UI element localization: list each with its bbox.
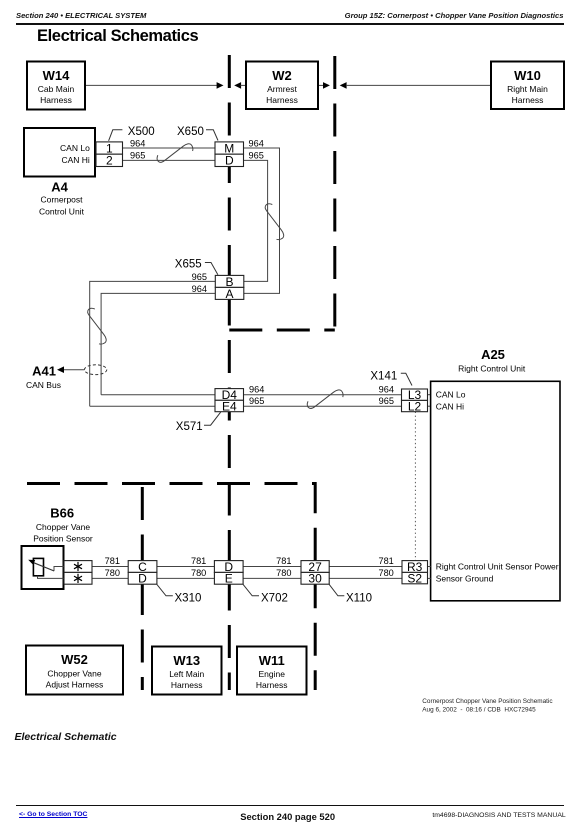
svg-text:780: 780 [105, 568, 120, 578]
svg-text:965: 965 [249, 396, 264, 406]
svg-text:781: 781 [191, 556, 206, 566]
harness boundary dashed line (horizontal) with corner down [27, 484, 315, 691]
svg-text:X655: X655 [175, 258, 202, 270]
page title [37, 27, 198, 46]
connector X310 cells [128, 561, 157, 573]
A41 arrowhead [57, 366, 64, 373]
svg-text:965: 965 [249, 151, 264, 161]
svg-text:Sensor Ground: Sensor Ground [436, 573, 494, 583]
svg-text:D: D [225, 154, 234, 168]
harness boundary dashed line between W52 and W13 [141, 487, 144, 690]
svg-text:A: A [225, 287, 233, 301]
svg-text:964: 964 [249, 385, 264, 395]
svg-text:X571: X571 [176, 421, 203, 433]
wire stub S2 into A25 [428, 577, 431, 579]
X110 label and leader [329, 584, 344, 595]
svg-text:Harness: Harness [266, 95, 298, 105]
svg-text:Adjust Harness: Adjust Harness [46, 679, 104, 689]
svg-text:W2: W2 [272, 68, 292, 83]
svg-text:E4: E4 [222, 399, 237, 413]
wire X571 D4 to X141 L3 (964) [244, 394, 402, 396]
arrowhead from W10 side (left-pointing) [340, 82, 347, 89]
wire X655-A left to CAN bus (964) [101, 293, 215, 394]
svg-text:A41: A41 [32, 364, 56, 379]
svg-text:965: 965 [192, 272, 207, 282]
wire A4 pin1 to X650 (964) [95, 147, 215, 149]
X650 label and leader [206, 130, 218, 141]
footer link Go to Section TOC [19, 811, 87, 818]
W11 box [237, 647, 307, 695]
svg-text:W11: W11 [259, 653, 285, 668]
W13 box [152, 647, 222, 695]
svg-text:Harness: Harness [171, 680, 203, 690]
W14 box [27, 62, 85, 110]
svg-text:Cab Main: Cab Main [38, 84, 75, 94]
sensor wire 780 row [92, 577, 402, 579]
wire down-right into X571 D4 (964) [101, 394, 215, 396]
potentiometer element inside B66 [33, 558, 43, 575]
svg-text:Control Unit: Control Unit [39, 207, 85, 217]
svg-text:Right Control Unit: Right Control Unit [458, 364, 526, 374]
caption: Electrical Schematic [15, 731, 117, 743]
sensor pin box with splice symbols [64, 561, 92, 573]
svg-text:W14: W14 [43, 68, 71, 83]
bottom lead of potentiometer [38, 576, 65, 579]
X571 label and leader [204, 412, 221, 425]
svg-text:B66: B66 [50, 506, 74, 521]
svg-text:L2: L2 [408, 399, 422, 413]
twisted-pair symbol before X141 [307, 390, 343, 408]
svg-text:X110: X110 [346, 592, 372, 604]
wire right boundary to W10 [346, 84, 491, 86]
svg-text:Chopper Vane: Chopper Vane [36, 522, 90, 532]
connector X141 cells (L3/L2) [402, 389, 428, 400]
X310 label and leader [157, 584, 173, 595]
potentiometer wiper arrow [33, 562, 54, 571]
wire W14 to armrest boundary [85, 84, 217, 86]
svg-text:30: 30 [308, 572, 322, 586]
svg-text:A4: A4 [51, 180, 68, 195]
connector X500 cells [96, 142, 123, 154]
wire X571 E4 to X141 L2 (965) [244, 405, 402, 407]
svg-text:Harness: Harness [512, 95, 544, 105]
svg-text:CAN Lo: CAN Lo [436, 390, 466, 400]
svg-text:Armrest: Armrest [267, 84, 297, 94]
X655 label and leader [205, 263, 218, 275]
header left text [16, 11, 146, 20]
svg-text:Right Control Unit Sensor Powe: Right Control Unit Sensor Power [436, 562, 559, 572]
svg-text:Aug 6, 2002 - 08:16 / CDB H: Aug 6, 2002 - 08:16 / CDB HXC72945 [422, 706, 536, 713]
footer rule [16, 805, 564, 806]
svg-text:X650: X650 [177, 126, 204, 138]
svg-text:CAN Hi: CAN Hi [436, 401, 464, 411]
W52 box [26, 646, 123, 695]
wire A4 pin2 to X650 (965) [95, 159, 215, 161]
X141 label and leader [401, 373, 412, 385]
svg-text:CAN Lo: CAN Lo [60, 143, 90, 153]
svg-text:A25: A25 [481, 347, 505, 362]
svg-text:964: 964 [249, 138, 264, 148]
A41 pointer line [63, 369, 85, 371]
svg-text:Chopper Vane: Chopper Vane [47, 668, 101, 678]
wire down-right into X571 E4 (965) [90, 405, 215, 407]
svg-text:964: 964 [130, 138, 145, 148]
svg-text:2: 2 [106, 154, 113, 168]
svg-text:X500: X500 [128, 126, 155, 138]
header rule [16, 23, 564, 24]
twisted-pair symbol between X500 and X650 [157, 144, 193, 162]
svg-text:D: D [138, 572, 147, 586]
footer right manual name [432, 812, 565, 819]
svg-text:781: 781 [105, 556, 120, 566]
svg-text:Position Sensor: Position Sensor [33, 533, 93, 543]
svg-text:781: 781 [378, 556, 393, 566]
wire X650-D right then down (965) [244, 160, 268, 281]
splice asterisk bottom [74, 574, 82, 583]
svg-text:Engine: Engine [258, 669, 285, 679]
svg-text:W52: W52 [61, 652, 88, 667]
arrowhead into boundary (right) [217, 82, 224, 89]
W2 box [246, 62, 318, 110]
svg-text:964: 964 [192, 284, 207, 294]
W10 box [491, 62, 564, 110]
node A41 dashed ellipse [84, 365, 106, 375]
arrowhead from W2 (left-pointing) [234, 82, 241, 89]
wire stub L3 into A25 [428, 394, 431, 396]
wire stub R3 into A25 [428, 566, 431, 568]
armrest boundary dashed line (left, full height) [228, 55, 231, 690]
header right text [345, 11, 564, 20]
svg-text:CAN Bus: CAN Bus [26, 380, 61, 390]
twisted-pair symbol on left vertical pair [88, 308, 106, 344]
X500 label and leader [109, 130, 123, 141]
svg-text:781: 781 [276, 556, 291, 566]
wire stub L2 into A25 [428, 405, 431, 407]
sensor B66 outer box [22, 546, 64, 589]
svg-text:X141: X141 [370, 371, 397, 383]
connector X655 cells [215, 275, 244, 287]
svg-text:Cornerpost Chopper Vane Positi: Cornerpost Chopper Vane Position Schemat… [422, 698, 553, 705]
svg-text:E: E [225, 572, 233, 586]
svg-text:CAN Hi: CAN Hi [61, 155, 89, 165]
control unit A4 box [24, 128, 95, 177]
svg-text:965: 965 [130, 151, 145, 161]
svg-text:Right Main: Right Main [507, 84, 548, 94]
wire boundary to W2 [241, 84, 247, 86]
svg-text:780: 780 [276, 568, 291, 578]
A25 box [431, 381, 560, 601]
svg-text:964: 964 [379, 385, 394, 395]
connector X702 cells [214, 561, 243, 573]
splice asterisk top [74, 562, 82, 571]
connector X571 cells [215, 389, 244, 401]
svg-text:965: 965 [379, 396, 394, 406]
A25 sensor pin cells R3/S2 [402, 561, 428, 573]
svg-text:Harness: Harness [256, 680, 288, 690]
wiper lead to top pin [54, 567, 64, 571]
connector X650 cells [215, 142, 244, 154]
arrowhead into right boundary [323, 82, 330, 89]
svg-text:780: 780 [191, 568, 206, 578]
X702 label and leader [243, 584, 259, 595]
footer center page number [0, 811, 575, 822]
svg-text:W13: W13 [173, 653, 200, 668]
svg-text:X310: X310 [175, 592, 202, 604]
svg-text:X702: X702 [261, 592, 288, 604]
wire X655-B left to CAN bus (965) [90, 281, 216, 406]
wire W2 to right boundary [318, 84, 324, 86]
connector X110 cells [301, 561, 329, 573]
svg-text:Harness: Harness [40, 95, 72, 105]
svg-text:S2: S2 [407, 572, 422, 586]
svg-text:Left Main: Left Main [169, 669, 204, 679]
dotted line X141 to sensor connector [414, 412, 416, 561]
svg-text:W10: W10 [514, 68, 541, 83]
svg-text:Cornerpost: Cornerpost [40, 195, 83, 205]
twisted-pair symbol on vertical pair below X650 [265, 204, 283, 240]
sensor wire 781 row [92, 566, 402, 568]
armrest boundary dashed line (right) with corner [333, 56, 336, 330]
wire X650-M right then down (964) [244, 148, 280, 293]
svg-text:780: 780 [378, 568, 393, 578]
